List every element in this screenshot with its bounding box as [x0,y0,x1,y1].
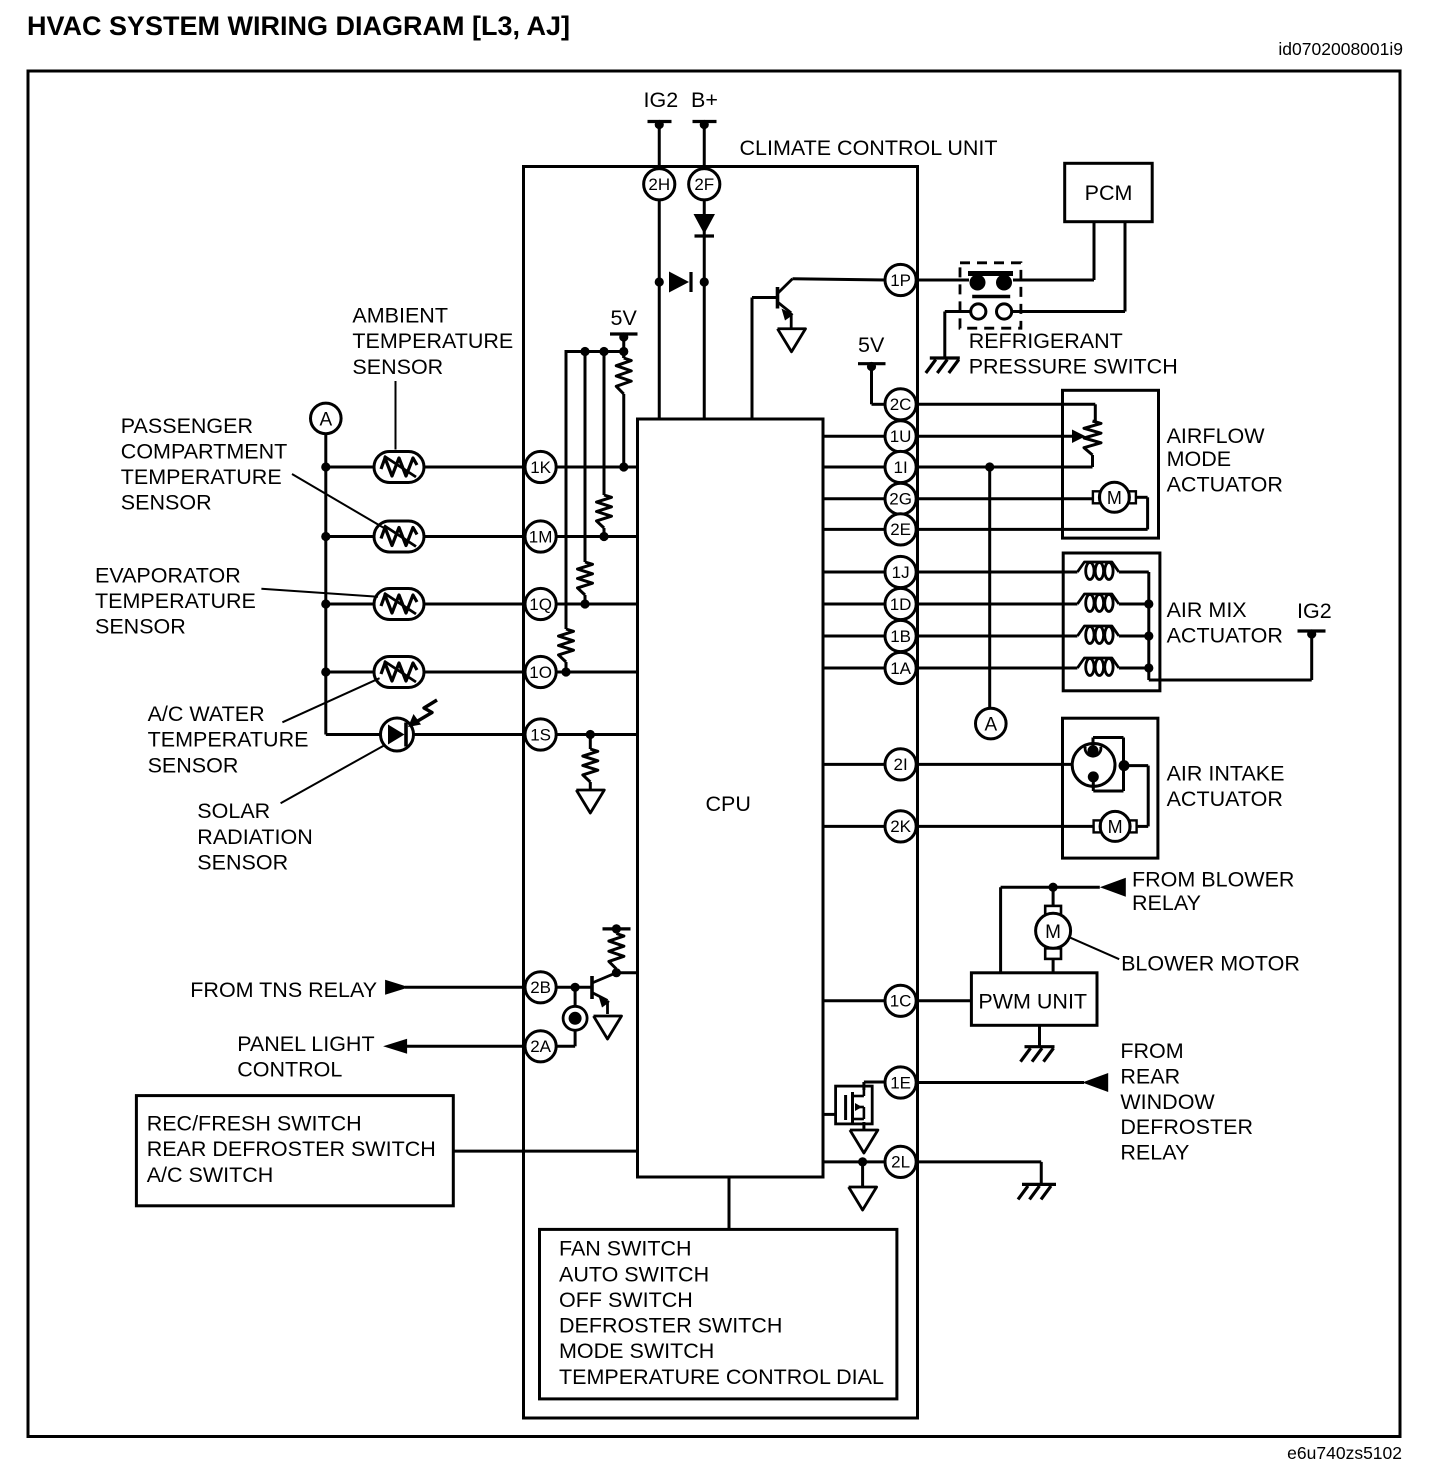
IG2 supply terminal [644,88,679,129]
svg-text:2F: 2F [694,175,714,194]
svg-text:AIR MIX: AIR MIX [1167,598,1247,622]
pin 1S [525,719,556,750]
svg-text:RADIATION: RADIATION [197,825,312,849]
svg-text:REAR: REAR [1120,1065,1180,1089]
svg-text:PWM UNIT: PWM UNIT [978,989,1087,1013]
resistor R4 (1O pull-up) [559,629,574,662]
from rear window defroster relay label [1120,1039,1253,1164]
pin 2L [885,1146,916,1177]
position switch S2 (air intake) [1072,744,1115,787]
junction on 2F line [700,277,709,286]
panel light control label [237,1032,374,1082]
svg-text:COMPARTMENT: COMPARTMENT [121,439,287,463]
wire CPU to pin 1I [823,466,886,469]
wire coil L3 to common [1119,635,1149,638]
diode D1 [694,214,716,236]
svg-text:M: M [1107,488,1122,508]
B+ supply terminal [691,88,718,129]
A/C water temperature sensor label [148,702,309,777]
motor M1 (airflow mode) [1093,491,1100,503]
wire CPU to pin 1C [823,999,886,1002]
potentiometer VR1 (airflow) [1084,421,1101,455]
wire Q2 collector to pin 1P [793,279,886,280]
svg-text:SOLAR: SOLAR [197,799,270,823]
svg-text:1J: 1J [892,563,910,582]
evaporator temperature sensor label [95,563,256,638]
pin 1U [885,421,916,452]
wire pin 2K to motor M2 [916,825,1094,828]
ground (MOSFET source) [850,1130,878,1153]
svg-text:TEMPERATURE: TEMPERATURE [121,465,282,489]
wire ambient temperature sensor TH1 to pin 1K [424,466,526,469]
wire PWM unit to ground [1038,1025,1041,1046]
svg-text:1E: 1E [890,1073,911,1092]
wire 5V to pull-up rail [622,337,625,358]
wire pin 1J to coil L1 [916,571,1078,574]
wire CPU to pin 1U [823,435,886,438]
wire CPU to pin 2G [823,497,886,500]
wire junction to motor M2 [1124,766,1148,827]
pin 1D [885,588,916,619]
svg-text:1C: 1C [890,992,912,1011]
wire evaporator temperature sensor TH3 to pin 1Q [424,603,526,606]
pin 1C [885,985,916,1016]
passenger compartment temperature sensor label [121,414,287,515]
ground (1S pull-down) [576,790,604,813]
wire position switch common [1122,738,1125,792]
wire pin 1A to coil L4 [916,667,1078,670]
coil L4 (air mix) [1077,658,1119,668]
5V supply stub (sensor pull-ups) [610,306,638,342]
resistor R2 (1M pull-up) [597,495,612,528]
solar radiation sensor D3 [381,718,414,751]
wire R2 to 1M node [599,528,608,541]
wire pin 2B to Q1 base [556,983,592,992]
svg-text:IG2: IG2 [644,88,679,112]
svg-text:FROM BLOWER: FROM BLOWER [1132,867,1294,891]
wire CPU to Q2 base [752,298,778,420]
wire bus to passenger compartment temperature sensor TH2 [326,535,374,538]
pin 2F [689,169,720,200]
wire CPU to pin 1D [823,603,886,606]
svg-text:REAR DEFROSTER SWITCH: REAR DEFROSTER SWITCH [147,1137,436,1161]
pin 1O [525,656,556,687]
wire pin 1B to coil L3 [916,635,1078,638]
wire motor M1 to pin 2E [916,497,1148,529]
supply stub (panel light) [603,924,631,933]
refrigerant pressure switch label [969,329,1178,379]
pin 2I [885,749,916,780]
wire REC/FRESH panel to CPU [453,1150,637,1153]
pin 2G [885,483,916,514]
wire potentiometer to pin 1I [916,455,1093,467]
wire pin 1E to defroster relay arrow [916,1081,1084,1084]
svg-text:RELAY: RELAY [1132,891,1201,915]
svg-text:5V: 5V [611,306,638,330]
air intake actuator box [1063,718,1158,858]
svg-text:B+: B+ [691,88,718,112]
REC/FRESH switch panel box [136,1096,453,1206]
svg-text:FROM: FROM [1120,1039,1183,1063]
svg-text:2H: 2H [648,175,670,194]
wire pin 1D to coil L2 [916,603,1078,606]
svg-text:REC/FRESH SWITCH: REC/FRESH SWITCH [147,1112,362,1136]
wire R1 to 1K node [619,394,628,472]
svg-text:REFRIGERANT: REFRIGERANT [969,329,1123,353]
svg-text:RELAY: RELAY [1120,1140,1189,1164]
pin 2B [525,972,556,1003]
transistor Q1 [592,973,616,1014]
svg-text:WINDOW: WINDOW [1120,1090,1215,1114]
arrow from blower relay [1100,878,1126,897]
svg-text:M: M [1045,922,1061,943]
coil L1 (air mix) [1077,562,1119,572]
svg-text:SENSOR: SENSOR [95,615,186,639]
wire position switch bottom contact [1093,777,1123,791]
solar radiation sensor label [197,799,312,874]
arrow from rear window defroster relay [1082,1073,1108,1092]
leader passenger label to TH2 [292,474,384,528]
pin 2C [885,389,916,420]
wire rail to R3 [584,352,587,563]
5V supply stub (2C) [858,333,886,371]
svg-text:2L: 2L [891,1153,910,1172]
svg-text:AIRFLOW: AIRFLOW [1167,424,1266,448]
ground (PWM unit) [1025,1045,1055,1048]
svg-text:TEMPERATURE: TEMPERATURE [148,728,309,752]
wire MOSFET drain to pin 1E [864,1082,886,1090]
wire pin 2I to position switch [916,763,1073,766]
wire blower motor to PWM unit [1052,959,1055,973]
wire pin 1M to CPU [556,535,638,538]
svg-text:1K: 1K [530,458,551,477]
wire TNS arrow to pin 2B [405,986,526,989]
leader A/C water label to TH4 [282,678,379,722]
svg-text:OFF SWITCH: OFF SWITCH [559,1288,693,1312]
pin 2K [885,811,916,842]
svg-text:e6u740zs5102: e6u740zs5102 [1287,1443,1402,1463]
svg-text:DEFROSTER SWITCH: DEFROSTER SWITCH [559,1314,782,1338]
solar radiation arrow [408,700,437,727]
wire pin 1C to PWM unit [916,999,972,1002]
airflow mode actuator label [1167,424,1283,497]
wire passenger compartment temperature sensor TH2 to pin 1M [424,535,526,538]
wire pin 2G to motor M1 [916,497,1093,500]
svg-text:ACTUATOR: ACTUATOR [1167,624,1283,648]
wire CPU to pin 1A [823,667,886,670]
pin 1A [885,652,916,683]
svg-text:A/C SWITCH: A/C SWITCH [147,1163,274,1187]
svg-text:IG2: IG2 [1297,599,1332,623]
svg-text:TEMPERATURE: TEMPERATURE [352,329,513,353]
wire R4 to 1O node [561,662,570,677]
pin 2H [644,169,675,200]
svg-text:AIR INTAKE: AIR INTAKE [1167,762,1285,786]
svg-text:TEMPERATURE: TEMPERATURE [95,589,256,613]
CPU U1 box [638,419,824,1177]
svg-text:1A: 1A [890,659,911,678]
ground (2L external) [1022,1183,1056,1186]
wire 5V stub to pin 2C [872,367,886,405]
node A (left) [311,403,342,434]
PWM unit box [971,973,1097,1026]
ambient temperature sensor TH1 [374,452,424,483]
wire pin 2A to panel light arrow [407,1045,526,1048]
junction Q1 collector node [612,968,621,977]
wire MOSFET source to ground [862,1122,865,1130]
leader ambient label to TH1 [395,381,397,450]
climate control unit box [524,167,918,1419]
svg-text:1U: 1U [890,427,912,446]
pin 1J [885,556,916,587]
svg-text:1S: 1S [530,725,551,744]
pin 1P [885,264,916,295]
svg-text:2A: 2A [530,1037,551,1056]
wire bus corner to solar radiation sensor [326,733,382,736]
resistor R3 (1Q pull-up) [578,562,593,595]
svg-text:A: A [984,715,997,736]
svg-text:PASSENGER: PASSENGER [121,414,253,438]
wire 1U wiper arrow [916,430,1086,444]
wire B+ to pin 2F [703,124,706,169]
svg-text:id0702008001i9: id0702008001i9 [1278,39,1403,59]
wire coil L2 to common [1119,603,1149,606]
svg-text:5V: 5V [858,333,885,357]
blower motor M3 [1036,906,1071,959]
wire R6 to supply stub [615,929,618,934]
wire bus to evaporator temperature sensor TH3 [326,603,374,606]
svg-text:SENSOR: SENSOR [121,491,212,515]
IG2 supply stub (air mix) [1297,599,1332,639]
ground (Q2 emitter) [778,329,806,352]
svg-text:TEMPERATURE CONTROL DIAL: TEMPERATURE CONTROL DIAL [559,1365,884,1389]
svg-text:1O: 1O [529,663,552,682]
resistor R6 (Q1 collector) [609,934,624,970]
wire pin 2F to CPU [703,200,706,420]
svg-text:2B: 2B [530,978,551,997]
wire pin 2H to CPU [658,200,661,420]
svg-text:DEFROSTER: DEFROSTER [1120,1115,1253,1139]
svg-text:2I: 2I [894,755,908,774]
pin 1K [525,451,556,482]
svg-text:SENSOR: SENSOR [197,851,288,875]
svg-text:2E: 2E [890,520,911,539]
passenger compartment temperature sensor TH2 [374,521,424,552]
diode D2 [669,272,691,293]
svg-text:ACTUATOR: ACTUATOR [1167,787,1283,811]
REC/FRESH switch panel label [147,1112,436,1187]
wire R3 to 1Q node [580,595,589,609]
ground (Q1 emitter) [594,1016,622,1039]
coil L3 (air mix) [1077,626,1119,636]
pin 1I [885,451,916,482]
wire blower relay to PWM [1001,887,1100,973]
resistor R1 (1K pull-up) [616,358,631,394]
arrow panel light control [383,1039,407,1054]
junction blower feed [1049,883,1058,892]
svg-text:PRESSURE SWITCH: PRESSURE SWITCH [969,355,1178,379]
wire rail to R2 [603,352,606,496]
wire position switch top contact [1093,738,1124,751]
wire pin 1O to CPU [556,671,638,674]
wire pin 2C to potentiometer [916,404,1096,421]
pin 1E [885,1067,916,1098]
svg-text:2G: 2G [889,490,912,509]
air intake actuator label [1167,762,1285,811]
wire 2L junction to ground [861,1162,864,1187]
wire 1S node to R5 [589,735,592,750]
ambient temperature sensor label [352,304,513,379]
svg-text:M: M [1108,817,1123,837]
wire solar sensor to pin 1S [414,733,527,736]
svg-text:MODE SWITCH: MODE SWITCH [559,1339,714,1363]
air mix actuator label [1167,598,1283,647]
wire junction to node A (right) [988,467,991,708]
pin 2A [525,1031,556,1062]
wire pin 1Q to CPU [556,603,638,606]
wire CPU to pin 1B [823,635,886,638]
wire R5 to ground [589,782,592,790]
resistor R5 (1S pull-down) [583,749,598,782]
wire CPU to pin 2K [823,825,886,828]
pull-up rail wire [566,347,628,358]
pin 1B [885,620,916,651]
airflow mode actuator box [1063,390,1159,538]
svg-text:1M: 1M [529,527,553,546]
panel light bulb B1 [556,987,588,1046]
wire pin 1P to pressure switch [916,279,969,282]
svg-text:SENSOR: SENSOR [352,355,443,379]
wire CPU to pin 1J [823,571,886,574]
wire coil L1 to common [1119,571,1149,574]
wire pin 1S to CPU [556,730,638,739]
junction node A feed [985,462,994,471]
svg-text:AMBIENT: AMBIENT [352,304,448,328]
svg-text:A/C WATER: A/C WATER [148,702,265,726]
junction on 2H line [655,277,664,286]
node A (right) [976,708,1007,739]
leader blower motor label [1071,938,1120,959]
coil L2 (air mix) [1077,594,1119,604]
svg-text:CLIMATE CONTROL UNIT: CLIMATE CONTROL UNIT [740,136,998,160]
pin 1Q [525,588,556,619]
ground (pressure switch) [930,356,960,359]
junction air intake [1119,760,1130,771]
air mix common wire [1144,572,1311,680]
MOSFET Q3 [836,1086,873,1124]
wire A/C water temperature sensor TH4 to pin 1O [424,671,526,674]
svg-text:CONTROL: CONTROL [237,1058,342,1082]
svg-text:SENSOR: SENSOR [148,753,239,777]
svg-text:HVAC SYSTEM WIRING DIAGRAM [L3: HVAC SYSTEM WIRING DIAGRAM [L3, AJ] [27,11,570,41]
wire CPU to MOSFET gate [823,1113,836,1116]
leader evaporator label to TH3 [261,589,378,597]
wire PCM to pressure switch lower contact [1012,222,1125,312]
A/C water temperature sensor TH4 [374,657,424,688]
motor M2 (air intake) [1094,820,1101,832]
svg-text:BLOWER MOTOR: BLOWER MOTOR [1121,951,1300,975]
ground (2L internal) [849,1187,877,1210]
svg-text:PANEL LIGHT: PANEL LIGHT [237,1032,374,1056]
svg-text:ACTUATOR: ACTUATOR [1167,472,1283,496]
wire bus to ambient temperature sensor TH1 [326,466,374,469]
wire Q1 collector to CPU [616,971,637,974]
from blower relay label [1132,867,1294,915]
svg-text:1Q: 1Q [529,595,552,614]
wire pin 1K to CPU [556,466,638,469]
leader solar label to D3 [281,746,384,804]
svg-text:1B: 1B [890,627,911,646]
svg-text:FROM TNS RELAY: FROM TNS RELAY [190,978,377,1002]
svg-text:2K: 2K [890,817,911,836]
fan switch panel label [559,1237,884,1389]
wire pressure switch to ground [945,312,971,359]
svg-text:PCM: PCM [1085,181,1133,205]
svg-text:AUTO SWITCH: AUTO SWITCH [559,1262,709,1286]
wire coil L4 to common [1119,667,1149,670]
svg-text:EVAPORATOR: EVAPORATOR [95,563,241,587]
junction 2L ground [858,1157,867,1166]
wire bus to A/C water temperature sensor TH4 [326,671,374,674]
refrigerant pressure switch S1 [960,263,1021,328]
sensor bus wire [321,434,330,735]
wire CPU to pin 2E [823,528,886,531]
svg-text:1I: 1I [894,458,908,477]
wire CPU to pin 2I [823,763,886,766]
evaporator temperature sensor TH3 [374,589,424,620]
transistor Q2 [778,279,794,328]
wire junction to blower motor [1052,887,1055,906]
arrow from TNS relay [385,980,409,995]
svg-text:MODE: MODE [1167,447,1232,471]
pin 2E [885,514,916,545]
wire PCM to pressure switch contact [1013,222,1094,280]
wire CPU to fan switch panel [728,1177,731,1229]
pin 1M [525,521,556,552]
svg-text:FAN SWITCH: FAN SWITCH [559,1237,692,1261]
svg-text:1D: 1D [890,595,912,614]
air mix actuator box [1063,553,1160,691]
wire pin 2L to ground [916,1162,1042,1185]
wire IG2 to pin 2H [658,124,661,169]
fan switch panel box [540,1229,897,1399]
svg-text:CPU: CPU [706,792,751,816]
svg-text:2C: 2C [890,395,912,414]
PCM box [1065,163,1153,221]
svg-text:1P: 1P [890,271,911,290]
svg-text:A: A [319,409,332,430]
wire CPU to pin 2L [823,1160,886,1163]
wire rail to R4 [565,350,568,629]
